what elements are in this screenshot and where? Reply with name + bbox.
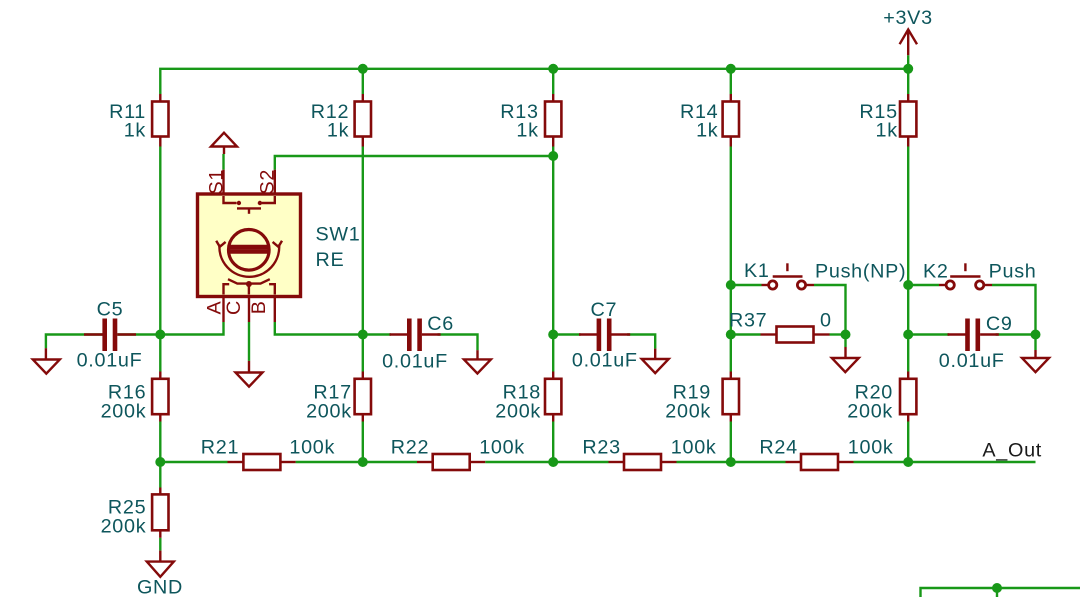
svg-text:C7: C7 (590, 299, 617, 321)
junction bus2 col5 (903, 457, 913, 467)
svg-text:0.01uF: 0.01uF (939, 350, 1005, 372)
resistor R15 (859, 94, 916, 147)
resistor R24 (759, 437, 893, 471)
resistor R19 (665, 372, 739, 423)
svg-text:100k: 100k (848, 437, 894, 459)
svg-text:B: B (248, 300, 270, 314)
svg-text:1k: 1k (124, 120, 146, 142)
wire column R18 bottom (552, 422, 554, 463)
wire bottom right stub (996, 588, 998, 597)
wire column R19 bottom (730, 422, 732, 463)
junction bus1 R15 (903, 64, 913, 74)
ground C9 (1022, 350, 1049, 372)
power flag above S1 (211, 133, 237, 154)
wire column R17 bottom (362, 422, 364, 463)
svg-text:RE: RE (316, 249, 345, 271)
wire C9 left (908, 333, 949, 335)
wire bus2 seg3 (485, 461, 608, 463)
junction C9 left (903, 330, 913, 340)
svg-text:200k: 200k (495, 401, 541, 423)
wire column R12 bottom (362, 147, 364, 372)
wire bus2 seg2 (296, 461, 417, 463)
pin A (204, 297, 226, 323)
svg-text:R21: R21 (201, 437, 239, 459)
svg-text:K1: K1 (744, 260, 770, 282)
wire top bus (160, 69, 908, 94)
resistor R20 (847, 372, 916, 423)
junction bus2 col3 (548, 457, 558, 467)
wire pin C down (248, 322, 250, 361)
svg-text:+3V3: +3V3 (883, 7, 933, 29)
wire column R16 to bus2 (159, 422, 161, 488)
svg-text:GND: GND (137, 577, 183, 597)
resistor R12 (311, 94, 371, 147)
svg-text:100k: 100k (479, 437, 525, 459)
resistor R13 (500, 94, 561, 147)
svg-text:Push: Push (989, 260, 1037, 282)
junction bus2 col2 (358, 457, 368, 467)
svg-text:S2: S2 (257, 169, 279, 195)
junction bus1 R14 (726, 64, 736, 74)
wire column R15 bottom (907, 147, 909, 372)
wire pin A to node (160, 322, 223, 335)
svg-text:C9: C9 (986, 313, 1013, 335)
ground R37 (832, 347, 859, 372)
junction bottom right (992, 583, 1002, 593)
svg-text:200k: 200k (101, 401, 147, 423)
wire bus2 seg5 to A_Out (854, 461, 1036, 463)
svg-text:R22: R22 (391, 437, 429, 459)
svg-text:100k: 100k (671, 437, 717, 459)
wire R37 left (731, 333, 761, 335)
svg-text:R24: R24 (759, 437, 797, 459)
svg-text:S1: S1 (205, 169, 227, 195)
svg-text:100k: 100k (289, 437, 335, 459)
wire column R14 top (730, 69, 732, 94)
resistor R16 (101, 372, 169, 423)
junction node B row (358, 330, 368, 340)
junction C9 right (1031, 330, 1041, 340)
svg-text:1k: 1k (876, 120, 898, 142)
svg-text:C6: C6 (427, 313, 454, 335)
ground C7 (642, 349, 669, 374)
ground C6 (464, 350, 491, 373)
rotary encoder SW1 (198, 194, 361, 297)
resistor R21 (201, 437, 335, 471)
resistor R37 (729, 310, 832, 343)
svg-text:C: C (223, 300, 245, 315)
wire R25 to ground (159, 538, 161, 551)
pin B (248, 297, 275, 323)
junction R37 left (726, 330, 736, 340)
svg-text:0.01uF: 0.01uF (382, 350, 448, 372)
wire K1 right down (814, 285, 846, 347)
junction R37 right (841, 330, 851, 340)
wire column R12 top (362, 69, 364, 94)
svg-text:200k: 200k (665, 401, 711, 423)
switch K1 (744, 260, 906, 289)
wire column R14 bottom (730, 147, 732, 372)
wire bus2 seg1 (160, 461, 227, 463)
wire column R13 top (552, 69, 554, 94)
junction K2 (903, 280, 913, 290)
wire K1 left (731, 284, 762, 286)
wire S2 net (275, 156, 553, 170)
wire C7 right (627, 335, 655, 349)
capacitor C5 (77, 299, 143, 372)
junction S2 node (548, 151, 558, 161)
resistor R23 (582, 437, 716, 471)
wire C5 left (46, 335, 103, 349)
pin S1 (205, 169, 227, 195)
svg-text:C5: C5 (97, 299, 124, 321)
wire K2 right down (992, 285, 1036, 335)
junction bus1 R12 (358, 64, 368, 74)
resistor R18 (495, 372, 561, 423)
wire K2 left (908, 284, 939, 286)
wire column R20 bottom (907, 422, 909, 463)
capacitor C7 (572, 299, 638, 372)
svg-text:200k: 200k (101, 516, 147, 538)
capacitor C9 (939, 313, 1013, 372)
ground encoder C (236, 361, 263, 387)
resistor R14 (680, 94, 739, 147)
wire C5 right (117, 333, 160, 335)
svg-text:K2: K2 (923, 260, 949, 282)
svg-text:A_Out: A_Out (982, 439, 1042, 461)
svg-text:Push(NP): Push(NP) (815, 260, 906, 282)
junction bus2 col1 (155, 457, 165, 467)
junction node A row (155, 330, 165, 340)
ground C5 (33, 348, 60, 373)
svg-text:200k: 200k (847, 401, 893, 423)
wire C6 right (438, 335, 478, 351)
wire bottom right horizontal (921, 588, 1080, 597)
switch K2 (923, 260, 1036, 289)
junction bus1 R13 (548, 64, 558, 74)
wire S1 to flag (222, 154, 224, 170)
junction bus2 col4 (726, 457, 736, 467)
svg-text:1k: 1k (696, 120, 718, 142)
svg-text:0: 0 (820, 310, 832, 332)
svg-text:1k: 1k (516, 120, 538, 142)
wire bus2 seg4 (677, 461, 786, 463)
pin C (223, 297, 249, 323)
wire pin B to node (275, 322, 363, 335)
wire column R15 top (907, 69, 909, 94)
capacitor C6 (382, 313, 454, 373)
svg-text:R23: R23 (582, 437, 620, 459)
svg-text:200k: 200k (306, 401, 352, 423)
svg-text:1k: 1k (327, 120, 349, 142)
wire R37 right (830, 333, 846, 335)
wire power stem (907, 55, 909, 69)
power +3V3 (883, 7, 933, 55)
junction C7 node (548, 330, 558, 340)
wire C7 left (553, 333, 581, 335)
wire C6 left (363, 333, 391, 335)
resistor R22 (391, 437, 525, 471)
pin S2 (257, 169, 279, 195)
svg-text:0.01uF: 0.01uF (572, 349, 638, 371)
svg-text:R37: R37 (729, 310, 767, 332)
resistor R25 (101, 488, 169, 538)
svg-text:SW1: SW1 (316, 224, 361, 246)
resistor R11 (109, 94, 168, 147)
wire column R13 bottom (552, 147, 554, 372)
svg-text:0.01uF: 0.01uF (77, 350, 143, 372)
wire column R11 (159, 147, 161, 372)
wire C9 right (996, 335, 1036, 351)
resistor R17 (306, 372, 371, 423)
junction K1 (726, 280, 736, 290)
ground GND (137, 551, 183, 597)
